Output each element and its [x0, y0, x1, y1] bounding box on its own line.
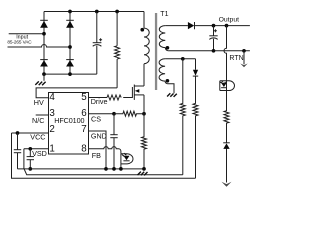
node VCC cap [16, 131, 20, 135]
svg-text:1: 1 [49, 143, 54, 154]
node output opto branch [225, 24, 229, 28]
wire RTN net [168, 50, 250, 52]
svg-text:8: 8 [81, 143, 87, 154]
resistor R3 CS [114, 111, 144, 116]
capacitor C5 output electrolytic [209, 26, 217, 51]
IC U1 HFC0100 [49, 92, 89, 154]
wire AC line bottom with hop over left bridge leg [8, 45, 71, 48]
bridge diode D2 (right top) [66, 20, 74, 27]
wire DC- bottom rail [44, 73, 97, 75]
node VSD cap on ground rail [28, 167, 32, 171]
capacitor C1 bulk electrolytic [93, 12, 102, 75]
FB pin 8 wire with hops over GND and C4 columns [89, 147, 121, 154]
wire LED anode/cathode vertical [226, 81, 228, 91]
wire secondary top [165, 25, 188, 27]
optocoupler LED U2a [220, 81, 235, 91]
wire VSD pin 1 [24, 148, 49, 150]
GND pin 7 wire [89, 131, 107, 169]
bridge diode D4 (right bottom) [66, 60, 74, 67]
wire bridge right leg [69, 12, 71, 75]
RTN arrow terminal bottom [222, 182, 232, 187]
node RTN cap [212, 49, 216, 53]
node C4 ground [112, 167, 116, 171]
svg-text:Drive: Drive [91, 97, 108, 106]
CS pin 6 wire [89, 113, 115, 115]
Drive pin 5 wire [89, 97, 108, 99]
wire opto branch vertical with hop over RTN [224, 26, 227, 81]
svg-text:HV: HV [34, 98, 44, 107]
svg-text:VCC: VCC [30, 132, 45, 141]
bridge diode D1 (left top) [40, 20, 48, 27]
capacitor C4 CS filter [110, 114, 117, 169]
node right leg bottom [68, 72, 72, 76]
node CS at MOSFET source [142, 112, 146, 116]
resistor R4 gate drive [107, 95, 121, 100]
wire VSD routing down with jog [24, 149, 183, 175]
wire output net [195, 25, 250, 27]
ground aux [167, 93, 177, 97]
node opto ground [119, 167, 123, 171]
transformer T1 primary winding [140, 12, 149, 66]
node GND rail [104, 167, 108, 171]
capacitor C3 VSD [27, 149, 34, 169]
wire VCC routing outer loop [12, 133, 196, 178]
node AC top on left leg [42, 32, 46, 36]
transformer T1 aux winding [159, 59, 169, 83]
wire AC line top [9, 33, 44, 35]
input label [7, 35, 32, 45]
transformer T1 core [155, 13, 157, 90]
svg-text:5: 5 [81, 92, 87, 103]
transformer T1 secondary winding [159, 26, 169, 51]
resistor R7 opto LED series [224, 91, 229, 143]
ground bridge [35, 74, 45, 85]
svg-text:RTN: RTN [229, 55, 243, 62]
svg-text:Output: Output [219, 17, 240, 24]
node sense ground [142, 167, 146, 171]
resistor R5 aux to VSD [180, 59, 185, 175]
ground primary bottom [138, 172, 148, 176]
svg-text:HFC0100: HFC0100 [54, 116, 84, 125]
resistor R1 startup (HV) [115, 12, 120, 88]
node RTN arrow [242, 49, 246, 53]
svg-text:2: 2 [49, 124, 54, 135]
svg-text:VSD: VSD [32, 149, 47, 158]
wire ground rail bottom [18, 168, 145, 170]
wire HV routing to pin 4 [36, 88, 117, 98]
wire VCC pin 2 [12, 132, 49, 134]
node VSD cap [28, 147, 32, 151]
MOSFET Q1 [132, 65, 144, 114]
aux diode D6 [193, 59, 198, 76]
svg-text:T1: T1 [160, 11, 168, 18]
node DC+ startup resistor [115, 10, 119, 14]
svg-text:4: 4 [49, 92, 55, 103]
node left leg bottom [42, 72, 46, 76]
node output cap [212, 24, 216, 28]
wire bridge left leg [43, 12, 45, 75]
node CS filter [112, 112, 116, 116]
node AC bottom on right leg [68, 45, 72, 49]
wire DC+ top rail [44, 11, 144, 13]
node aux divider [181, 57, 185, 61]
zener diode D7 [223, 143, 230, 183]
wire gate [123, 97, 132, 99]
resistor R6 aux to VCC [193, 76, 198, 178]
capacitor C2 VCC [14, 133, 21, 169]
RTN arrow terminal [240, 51, 247, 67]
wire aux top [165, 58, 195, 60]
svg-text:FB: FB [92, 151, 101, 160]
node DC+ bulk cap [95, 10, 99, 14]
pin 3 N/C stub [36, 114, 49, 116]
bridge diode D3 (left bottom) [40, 60, 48, 67]
svg-text:GND: GND [91, 131, 107, 140]
resistor R2 sense [142, 114, 147, 169]
wire opto emitter to ground [120, 164, 122, 169]
svg-text:7: 7 [81, 124, 86, 135]
optocoupler detector U2b [121, 153, 133, 164]
output diode D5 [188, 22, 195, 29]
node DC+ right leg [68, 10, 72, 14]
wire aux bottom to ground [165, 81, 174, 93]
svg-text:CS: CS [91, 115, 101, 124]
svg-text:85-265 VAC: 85-265 VAC [7, 40, 32, 45]
svg-text:N/C: N/C [32, 116, 44, 125]
